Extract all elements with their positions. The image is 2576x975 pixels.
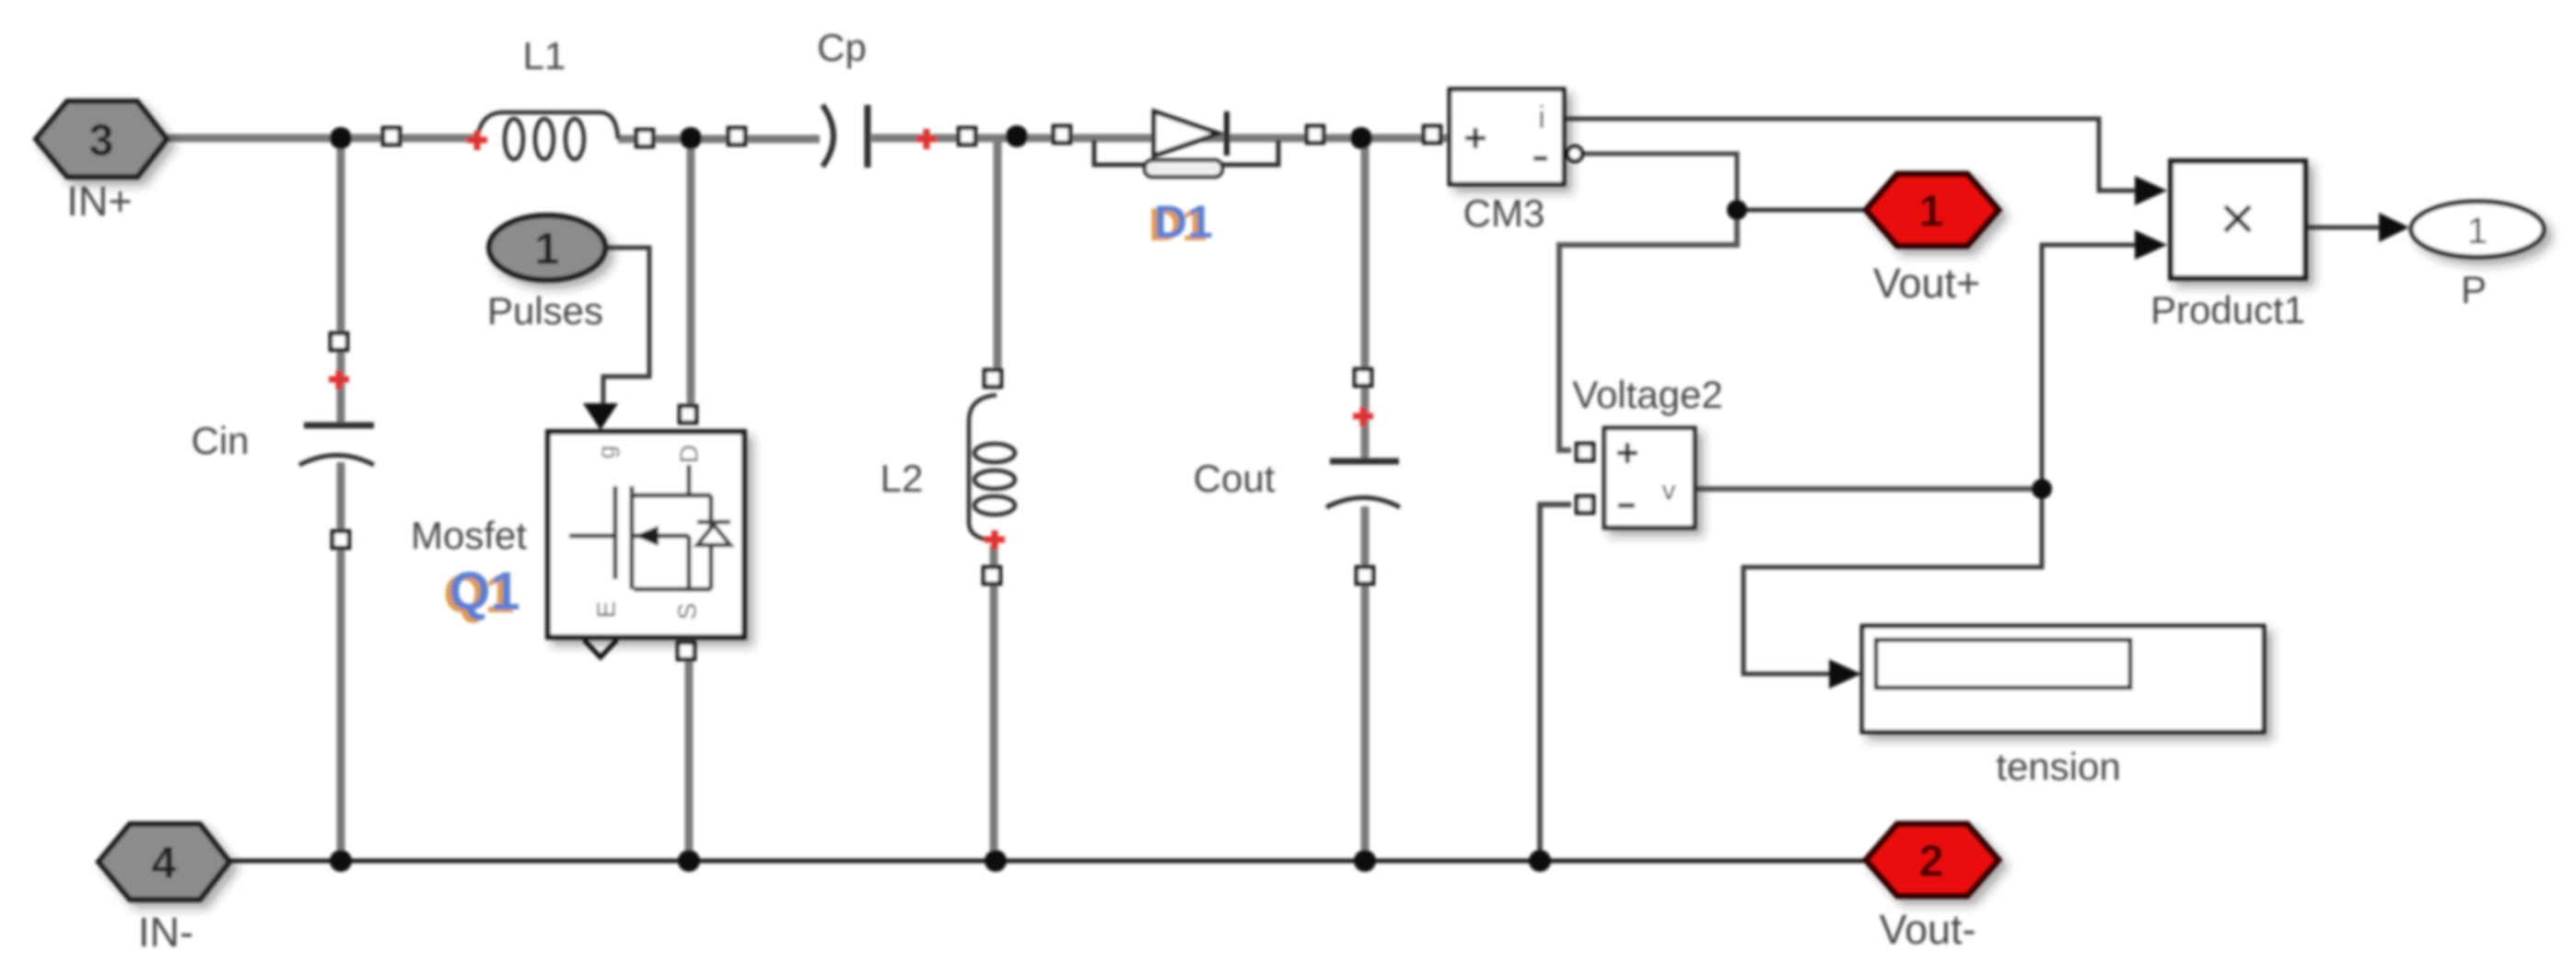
mosfet internal symbol xyxy=(569,465,711,589)
svg-text:D1: D1 xyxy=(1154,196,1213,248)
svg-text:D: D xyxy=(675,445,704,463)
wire top rail left (IN+ to L1) xyxy=(167,134,478,143)
svg-text:L1: L1 xyxy=(523,34,566,77)
wire port marker after Cp xyxy=(959,128,975,145)
arrowhead into Product1 input 1 xyxy=(2135,176,2167,205)
svg-text:Voltage2: Voltage2 xyxy=(1572,373,1723,416)
svg-text:1: 1 xyxy=(1919,188,1944,237)
svg-text:1: 1 xyxy=(535,226,560,274)
capacitor Cout xyxy=(1326,461,1400,507)
wire port marker before D1 xyxy=(1054,126,1070,143)
junction node A (CM3 minus / Vout+) xyxy=(1727,200,1747,220)
svg-text:4: 4 xyxy=(152,840,177,888)
gate arrowhead xyxy=(583,403,618,430)
wire CM3 minus port to node A xyxy=(1583,154,1737,210)
wire node A to Vout+ xyxy=(1737,208,1866,213)
wire Voltage2 v output to node B xyxy=(1696,486,2042,492)
svg-text:CM3: CM3 xyxy=(1463,192,1545,235)
junction node on rail at L2 xyxy=(1006,125,1028,147)
svg-text:Cin: Cin xyxy=(191,419,249,462)
wire port marker Cout bottom xyxy=(1357,567,1373,584)
arrowhead into Product1 input 2 xyxy=(2135,230,2167,260)
svg-text:P: P xyxy=(2461,268,2487,311)
wire Product1 output to P xyxy=(2305,226,2381,230)
polarity mark Cin xyxy=(329,370,349,389)
junction node B (Voltage2 v) xyxy=(2032,479,2052,499)
wire bottom bus (IN- to Vout-) xyxy=(230,859,1866,864)
svg-text:tension: tension xyxy=(1996,745,2120,788)
wire top rail (L1 to Cp) xyxy=(618,135,820,144)
wire port marker Cin bottom xyxy=(332,531,349,548)
wire Voltage2 minus input to bottom bus xyxy=(1540,505,1571,861)
Voltage2 plus sign xyxy=(1617,443,1638,463)
wire top rail (Cp to CM3) xyxy=(871,134,1450,143)
wire port marker after D1 xyxy=(1307,126,1323,143)
junction node on bus at Cin xyxy=(330,850,352,872)
port P oval 1 xyxy=(2411,202,2544,257)
wire Cout branch lower xyxy=(1361,506,1370,861)
wire Cout branch upper xyxy=(1361,138,1370,459)
port IN+ hexagon 3 xyxy=(36,101,167,177)
CM3 minus sign xyxy=(1533,157,1547,161)
capacitor Cin xyxy=(299,425,374,465)
svg-text:Cp: Cp xyxy=(817,26,867,69)
port IN- hexagon 4 xyxy=(99,824,229,900)
inductor L1 xyxy=(477,112,618,159)
svg-text:v: v xyxy=(1662,476,1676,506)
mosfet Q1 block xyxy=(548,432,744,637)
label D1 xyxy=(1148,196,1213,250)
wire port marker L2 top xyxy=(985,370,1001,387)
port Vout+ hexagon 1 xyxy=(1866,174,1999,246)
Product1 multiply sign xyxy=(2225,206,2250,231)
svg-text:E: E xyxy=(592,601,621,619)
wire port marker CM3 input xyxy=(1424,126,1440,143)
block Product1 xyxy=(2171,161,2305,278)
wire L2 branch lower xyxy=(990,545,998,861)
inductor L2 xyxy=(969,395,1015,540)
block Voltage2 voltage measurement xyxy=(1604,428,1695,528)
svg-text:Q1: Q1 xyxy=(449,562,519,621)
svg-text:L2: L2 xyxy=(880,457,924,500)
polarity mark L2 xyxy=(985,530,1005,550)
wire Pulses to Mosfet gate xyxy=(603,248,649,405)
port Pulses oval 1 xyxy=(489,215,605,280)
junction node on rail at Cin xyxy=(330,127,352,149)
wire node A to Voltage2 plus input xyxy=(1559,210,1737,450)
wire port marker Voltage2 minus xyxy=(1577,496,1593,513)
wire port marker L1 right xyxy=(636,130,653,146)
junction node on bus at Cout xyxy=(1354,850,1376,872)
wire port marker Cin top xyxy=(331,333,347,350)
CM3 plus sign xyxy=(1465,128,1486,148)
wire port marker Cout top xyxy=(1355,369,1371,386)
capacitor Cp xyxy=(822,105,868,168)
wire node B up to Product1 input 2 xyxy=(2042,245,2137,489)
wire node B down to tension display xyxy=(1743,489,2042,674)
wire Mosfet source branch xyxy=(685,654,694,861)
port Vout- hexagon 2 xyxy=(1866,824,1999,896)
svg-text:g: g xyxy=(592,446,620,458)
junction node on rail at Cout xyxy=(1350,127,1372,149)
svg-text:Mosfet: Mosfet xyxy=(411,514,527,557)
arrowhead into P xyxy=(2379,213,2409,242)
svg-text:IN-: IN- xyxy=(138,909,193,956)
CM3 minus output circle xyxy=(1568,146,1582,161)
block tension display xyxy=(1862,626,2264,732)
polarity mark Cout xyxy=(1353,407,1373,426)
svg-text:S: S xyxy=(673,603,702,621)
svg-text:i: i xyxy=(1538,100,1545,135)
svg-text:Vout-: Vout- xyxy=(1879,906,1976,953)
arrowhead into tension xyxy=(1829,659,1861,689)
svg-text:IN+: IN+ xyxy=(66,178,132,225)
svg-text:2: 2 xyxy=(1919,838,1944,887)
wire port marker on rail left of L1 xyxy=(383,128,400,145)
wire port marker Voltage2 plus xyxy=(1577,444,1593,460)
wire Mosfet drain branch xyxy=(687,138,695,414)
svg-text:Product1: Product1 xyxy=(2151,288,2305,331)
Voltage2 minus sign xyxy=(1618,504,1635,508)
svg-text:Pulses: Pulses xyxy=(487,289,603,332)
block CM3 current measurement xyxy=(1450,89,1564,184)
wire Cin branch upper xyxy=(337,138,345,424)
wire port marker right of Mosfet junction xyxy=(729,128,745,145)
polarity mark L1 xyxy=(467,131,487,150)
wire port marker Mosfet S xyxy=(678,643,694,659)
label Q1 xyxy=(443,562,519,624)
junction node on rail at Mosfet drain xyxy=(680,127,702,149)
svg-text:Vout+: Vout+ xyxy=(1873,260,1980,307)
mosfet unconnected m port chevron xyxy=(584,640,617,657)
svg-text:1: 1 xyxy=(2467,211,2488,251)
polarity mark Cp xyxy=(916,129,937,149)
tension inner value box xyxy=(1876,640,2130,688)
junction node on bus at L2 xyxy=(985,850,1007,872)
wire Cin branch lower xyxy=(337,462,345,861)
mosfet body diode xyxy=(697,522,730,545)
wire port marker L2 bottom xyxy=(984,567,1000,584)
svg-text:3: 3 xyxy=(89,117,114,166)
mosfet source arrowhead xyxy=(635,526,659,546)
wire L2 branch upper xyxy=(994,138,1002,388)
junction node on bus at Voltage2 xyxy=(1529,850,1551,872)
diode D1 xyxy=(1094,111,1278,177)
wire CM3 i output to Product1 input 1 xyxy=(1566,119,2137,191)
junction node on bus at Mosfet xyxy=(678,850,700,872)
svg-text:Cout: Cout xyxy=(1194,457,1276,500)
wire port marker Mosfet D xyxy=(680,406,696,423)
